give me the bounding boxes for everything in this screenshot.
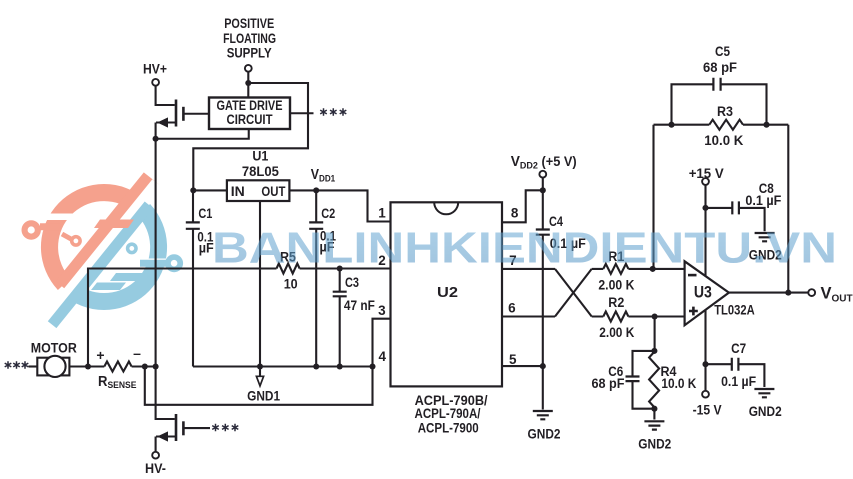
terminal -15V bbox=[702, 391, 709, 398]
wire motor left stub bbox=[29, 365, 38, 367]
svg-text:CIRCUIT: CIRCUIT bbox=[227, 112, 274, 127]
svg-text:VOUT: VOUT bbox=[821, 285, 853, 305]
node C7 tap bbox=[702, 361, 708, 367]
wire 78L05 OUT to VDD1 bbox=[289, 189, 316, 191]
gate drive circuit box bbox=[209, 98, 290, 130]
asterisks gate drive output bbox=[320, 108, 346, 116]
logo small pad salmon bbox=[70, 235, 82, 247]
node 78L05 IN junction bbox=[190, 187, 196, 193]
svg-text:10: 10 bbox=[284, 276, 298, 291]
logo trace salmon bbox=[40, 223, 60, 230]
wire shunt- to junction bbox=[132, 365, 156, 367]
svg-text:78L05: 78L05 bbox=[242, 164, 279, 179]
terminal HV- bbox=[152, 452, 159, 459]
resistor R1 bbox=[603, 264, 628, 274]
svg-text:3: 3 bbox=[378, 303, 386, 318]
svg-text:VDD1: VDD1 bbox=[311, 167, 336, 185]
wire HV+ to Q1 drain bbox=[156, 86, 175, 105]
svg-text:R3: R3 bbox=[717, 104, 733, 119]
wire crossover 6 to R1 bbox=[555, 269, 592, 317]
svg-text:2.00 K: 2.00 K bbox=[599, 325, 634, 340]
terminal VOUT bbox=[808, 289, 815, 296]
minus sign bbox=[688, 274, 697, 277]
svg-text:VDD2 (+5 V): VDD2 (+5 V) bbox=[511, 154, 577, 172]
resistor R2 bbox=[603, 312, 628, 322]
regulator U1 78L05 box bbox=[227, 180, 290, 201]
wire U2 pin6 stub bbox=[502, 315, 555, 317]
wire 78L05 ground pin bbox=[259, 201, 261, 367]
svg-text:SUPPLY: SUPPLY bbox=[227, 46, 272, 61]
terminal VDD2 bbox=[539, 171, 546, 178]
svg-text:TL032A: TL032A bbox=[714, 303, 755, 318]
svg-text:RSENSE: RSENSE bbox=[98, 374, 137, 391]
transistor Q1 bbox=[156, 100, 209, 139]
svg-text:U3: U3 bbox=[694, 284, 712, 302]
svg-text:47 nF: 47 nF bbox=[344, 298, 375, 313]
svg-text:C1: C1 bbox=[198, 206, 212, 221]
svg-text:GND2: GND2 bbox=[528, 426, 561, 441]
svg-text:10.0 K: 10.0 K bbox=[661, 376, 696, 391]
svg-text:GND1: GND1 bbox=[247, 389, 280, 404]
logo diagonal band salmon bbox=[56, 172, 161, 288]
logo slot white upper bbox=[40, 214, 92, 221]
node C5 left junction bbox=[668, 122, 674, 128]
svg-text:-15 V: -15 V bbox=[693, 402, 722, 417]
svg-text:+15 V: +15 V bbox=[689, 166, 724, 181]
logo trace salmon small bbox=[62, 234, 71, 239]
wire R1 line bbox=[592, 268, 685, 270]
plus sign bbox=[689, 307, 698, 316]
svg-text:68 pF: 68 pF bbox=[592, 376, 625, 391]
svg-text:MOTOR: MOTOR bbox=[31, 341, 77, 356]
capacitor C5 bbox=[672, 78, 767, 125]
resistor R3 bbox=[709, 120, 743, 130]
capacitor C2 bbox=[309, 190, 323, 366]
ground GND2 under C8 bbox=[755, 233, 775, 241]
transistor Q2 bbox=[156, 414, 210, 452]
wire R4 bottom to ground bbox=[653, 409, 655, 420]
wire gate drive bottom to Q1 source bbox=[156, 129, 249, 139]
asterisks Q2 gate bbox=[212, 424, 238, 432]
svg-text:ACPL-7900: ACPL-7900 bbox=[418, 421, 479, 436]
svg-text:C7: C7 bbox=[731, 341, 746, 356]
wire R2 line bbox=[592, 315, 685, 317]
svg-text:68 pF: 68 pF bbox=[703, 60, 737, 75]
wire R4 top bbox=[654, 317, 656, 353]
node pins 3-4 junction bbox=[369, 363, 375, 369]
svg-text:GND2: GND2 bbox=[749, 404, 782, 419]
wire VDD2 terminal down bbox=[542, 178, 544, 191]
node R4 C6 top junction bbox=[651, 348, 657, 354]
motor M bbox=[37, 356, 69, 377]
svg-text:5: 5 bbox=[509, 352, 517, 367]
wire sense+ line to U2 pin2 bbox=[88, 269, 390, 367]
node C3 top junction bbox=[337, 265, 343, 271]
svg-text:4: 4 bbox=[379, 349, 387, 364]
svg-text:0.1 µF: 0.1 µF bbox=[721, 374, 756, 389]
svg-text:U1: U1 bbox=[252, 149, 268, 164]
svg-text:1: 1 bbox=[378, 205, 386, 220]
svg-text:10.0 K: 10.0 K bbox=[704, 133, 743, 148]
WATERMARK-LOGO bbox=[22, 172, 184, 328]
node output junction bbox=[785, 290, 791, 296]
svg-text:U2: U2 bbox=[437, 284, 458, 301]
svg-text:BANLINHKIENDIENTU.VN: BANLINHKIENDIENTU.VN bbox=[212, 225, 837, 273]
logo slot white lower bbox=[128, 259, 178, 266]
resistor R4 bbox=[649, 352, 659, 407]
wire gate drive output bbox=[290, 112, 314, 114]
svg-text:ACPL-790A/: ACPL-790A/ bbox=[415, 406, 481, 421]
wire feedback right vertical bbox=[787, 125, 789, 293]
wire feedback left vertical bbox=[652, 125, 654, 269]
logo small pad blue bbox=[126, 242, 138, 254]
svg-text:0.1 µF: 0.1 µF bbox=[745, 193, 781, 208]
logo diagonal band blue bbox=[48, 202, 154, 329]
wire motor to shunt bbox=[69, 365, 104, 367]
node inverting input bbox=[650, 266, 656, 272]
node pin5 gnd junction bbox=[540, 363, 546, 369]
logo ring salmon upper-left half bbox=[41, 184, 136, 290]
node noninverting input bbox=[652, 313, 658, 319]
wire U2 pin3 stub bbox=[373, 319, 390, 367]
logo bar salmon bbox=[94, 220, 134, 229]
wire output bbox=[729, 292, 808, 294]
wire GND1 bus bbox=[193, 365, 373, 367]
wire op-amp supply vertical bbox=[704, 185, 706, 391]
wire crossover 7 to R2 bbox=[555, 269, 592, 317]
svg-text:C3: C3 bbox=[345, 275, 359, 290]
svg-text:8: 8 bbox=[511, 205, 519, 220]
node C8 tap bbox=[702, 205, 708, 211]
logo pad salmon bbox=[22, 220, 41, 239]
wire HV leg down to shunt bbox=[155, 139, 157, 367]
node 78L05 gnd junction bbox=[257, 363, 263, 369]
isolation amplifier U2 box bbox=[391, 202, 503, 386]
node C3 ground junction bbox=[337, 363, 343, 369]
ground GND2 under U2 bbox=[533, 411, 553, 419]
capacitor C4 bbox=[536, 190, 550, 409]
logo pad blue bbox=[165, 254, 183, 272]
svg-text:GATE DRIVE: GATE DRIVE bbox=[217, 98, 283, 113]
wire U2 pin7 stub bbox=[502, 268, 555, 270]
svg-text:POSITIVE: POSITIVE bbox=[224, 16, 274, 31]
svg-text:+: + bbox=[96, 347, 104, 363]
svg-text:6: 6 bbox=[508, 301, 516, 316]
ground GND1 arrow bbox=[256, 367, 263, 386]
wire sense- return loop bbox=[145, 367, 373, 405]
op-amp U3 bbox=[685, 261, 729, 325]
svg-text:HV+: HV+ bbox=[143, 62, 167, 77]
svg-text:IN: IN bbox=[231, 184, 245, 199]
node R4 C6 bottom junction bbox=[651, 406, 657, 412]
wire supply down to gate drive box bbox=[247, 72, 249, 98]
capacitor C3 bbox=[333, 269, 347, 367]
asterisks motor lead bbox=[5, 361, 29, 369]
node VDD2 junction bbox=[540, 187, 546, 193]
wire 78L05 IN bbox=[193, 189, 227, 191]
node sense- junction A bbox=[142, 363, 148, 369]
terminal HV+ bbox=[152, 79, 159, 86]
WATERMARK-TEXT bbox=[212, 225, 837, 273]
node supply junction bbox=[245, 80, 251, 86]
svg-text:HV-: HV- bbox=[145, 461, 166, 476]
wire U2 pin8 to VDD2 bbox=[502, 190, 543, 222]
svg-text:FLOATING: FLOATING bbox=[223, 31, 276, 46]
svg-text:2.00 K: 2.00 K bbox=[598, 278, 634, 293]
resistor R5 bbox=[277, 264, 300, 274]
resistor RSENSE bbox=[104, 362, 131, 372]
node motor sense+ junction bbox=[85, 363, 91, 369]
terminal +15V bbox=[702, 178, 709, 185]
U2 notch bbox=[434, 202, 458, 214]
svg-text:C2: C2 bbox=[321, 206, 335, 221]
node C2 ground junction bbox=[313, 363, 319, 369]
logo ring blue lower-right half bbox=[72, 204, 167, 310]
wire to Q2 drain bbox=[156, 367, 175, 420]
svg-text:–: – bbox=[133, 345, 141, 361]
svg-text:OUT: OUT bbox=[261, 184, 286, 199]
node shunt- junction B bbox=[153, 363, 159, 369]
node Q1 source junction bbox=[153, 136, 159, 142]
wire U2 pin5 stub bbox=[502, 365, 543, 367]
ground GND2 under C7 bbox=[754, 389, 774, 397]
logo trace blue bbox=[140, 260, 166, 267]
logo bar blue2 bbox=[91, 283, 126, 291]
svg-text:GND2: GND2 bbox=[638, 436, 671, 451]
capacitor C7 bbox=[706, 358, 765, 387]
wire VDD1 to U2 pin1 bbox=[316, 190, 389, 221]
wire supply to 78L05 input bbox=[193, 83, 308, 190]
logo bar blue1 bbox=[110, 273, 160, 281]
svg-text:R2: R2 bbox=[608, 295, 624, 310]
svg-text:C5: C5 bbox=[715, 44, 730, 59]
terminal POSITIVE FLOATING SUPPLY bbox=[245, 65, 252, 72]
capacitor C8 bbox=[706, 201, 765, 231]
node C5 right junction bbox=[763, 122, 769, 128]
capacitor C1 bbox=[186, 190, 200, 366]
ground GND2 under R4 bbox=[644, 421, 664, 429]
wire R3 line bbox=[654, 124, 789, 126]
node VDD1 bbox=[313, 187, 319, 193]
capacitor C6 bbox=[626, 351, 655, 409]
